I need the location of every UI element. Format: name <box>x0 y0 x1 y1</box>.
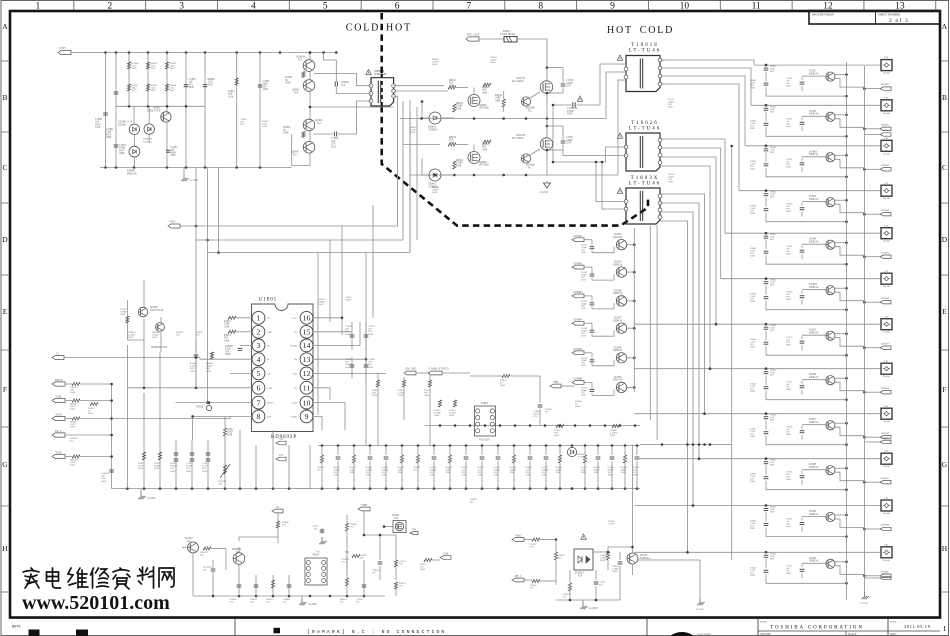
svg-text:B: B <box>942 93 947 102</box>
svg-text:KRB214: KRB214 <box>809 513 819 516</box>
capacitor C18410 <box>750 465 848 491</box>
svg-text:1608: 1608 <box>190 370 196 373</box>
svg-text:PB1: PB1 <box>885 361 889 363</box>
svg-text:450V: 450V <box>567 113 573 116</box>
svg-text:B: B <box>2 93 7 102</box>
svg-text:1608: 1608 <box>750 167 756 170</box>
capacitor CD846 <box>335 81 371 94</box>
wire gpbm bus verticals <box>634 225 657 440</box>
svg-text:PB1: PB1 <box>885 138 889 140</box>
transistor DG8R1 <box>802 150 864 168</box>
transistor D1810 <box>802 557 864 575</box>
svg-text:www.520101.com: www.520101.com <box>22 592 170 614</box>
resistor R1913 <box>449 400 457 417</box>
transistor BD1863 <box>521 92 540 112</box>
svg-text:1608: 1608 <box>285 82 291 85</box>
svg-text:1608: 1608 <box>786 298 792 301</box>
resistor R1826 <box>424 375 432 446</box>
connector SPBM2 <box>864 573 891 580</box>
svg-text:1608: 1608 <box>186 470 192 473</box>
svg-text:N.P: N.P <box>250 601 254 604</box>
wire bus y252 <box>208 251 411 254</box>
svg-text:5.1KF: 5.1KF <box>608 523 615 526</box>
capacitor C1847 <box>750 331 848 357</box>
connector VDD mid <box>168 220 180 228</box>
resistor R1848 <box>621 446 628 489</box>
svg-text:1608: 1608 <box>170 470 176 473</box>
svg-text:1608: 1608 <box>750 300 756 303</box>
resistor R8015 to pin2 <box>224 330 252 342</box>
mosfet QM802 <box>468 145 489 167</box>
capacitor C1844 <box>750 197 848 223</box>
wire left block rail <box>100 166 292 169</box>
ground bottom mid <box>299 596 316 606</box>
svg-text:T1803X: T1803X <box>631 176 660 181</box>
svg-text:U1801: U1801 <box>259 298 278 303</box>
svg-text:BD9893P: BD9893P <box>271 435 297 440</box>
transistor D1806 <box>802 373 864 391</box>
svg-text:LL: LL <box>56 352 60 356</box>
svg-text:P-GND: P-GND <box>540 191 548 194</box>
wire opto bottom <box>556 599 620 602</box>
svg-text:N.C: N.C <box>356 601 360 604</box>
capacitor C1889 <box>95 113 108 129</box>
capacitor C1837 <box>542 446 550 489</box>
wire driver column <box>292 51 394 165</box>
resistor R8034 <box>495 91 505 112</box>
svg-text:1608: 1608 <box>750 212 756 215</box>
svg-text:N.P: N.P <box>298 58 303 61</box>
capacitor C1813 <box>786 158 804 172</box>
svg-text:KRB124: KRB124 <box>613 292 623 295</box>
capacitor C1843 <box>750 152 848 178</box>
ground A-GND left block <box>181 167 198 182</box>
connector SWB <box>52 413 112 429</box>
svg-text:4: 4 <box>251 2 256 12</box>
connector COR <box>440 552 451 560</box>
svg-text:1608: 1608 <box>526 474 532 477</box>
svg-text:PB1: PB1 <box>885 544 889 546</box>
svg-text:Backlit: Backlit <box>883 113 890 115</box>
lamp connector square ch7 <box>881 316 892 333</box>
resistor R1865 <box>283 126 305 138</box>
capacitor at GPBM6 <box>581 382 594 396</box>
capacitor C1839 <box>633 446 640 489</box>
label KH048 <box>127 170 137 176</box>
capacitor C1830 <box>546 66 574 94</box>
resistor R1831 <box>350 446 357 489</box>
svg-text:GPBM2: GPBM2 <box>573 261 583 265</box>
svg-text:COMP: COMP <box>290 415 297 418</box>
resistor R1851 <box>228 78 238 98</box>
resistor RD841 <box>414 446 422 489</box>
svg-text:LT-TU46: LT-TU46 <box>629 127 662 132</box>
svg-text:N.P: N.P <box>341 84 346 87</box>
transistor DC804 <box>592 233 636 253</box>
svg-text:2: 2 <box>107 2 112 12</box>
svg-text:1608: 1608 <box>154 467 160 470</box>
ground right bus <box>860 592 869 605</box>
svg-text:9: 9 <box>610 2 615 12</box>
connector VDB <box>52 451 112 467</box>
watermark chinese characters <box>23 567 174 589</box>
svg-text:6KV: 6KV <box>770 329 775 332</box>
capacitor at GPBM5 <box>581 353 594 367</box>
ic U1801 pin 12 <box>293 367 313 380</box>
svg-text:1608: 1608 <box>420 568 426 571</box>
lamp return connector OPBMA <box>863 477 891 484</box>
resistor R1886 <box>345 515 357 570</box>
svg-text:1608: 1608 <box>138 467 144 470</box>
capacitor C18411 <box>750 512 848 538</box>
ic U1801 pin 5 <box>252 367 271 380</box>
mosfet Q18718 <box>512 76 553 93</box>
lamp connector square ch1 <box>881 57 892 74</box>
svg-text:IN: IN <box>267 358 270 361</box>
ic U1801 pin 14 <box>290 339 313 352</box>
svg-text:13: 13 <box>303 355 311 364</box>
svg-text:N.C: N.C <box>196 334 200 337</box>
wire hot mid verticals <box>410 100 417 252</box>
capacitor bottom b3 <box>266 575 275 604</box>
svg-text:PB1: PB1 <box>885 97 889 99</box>
svg-text:1608: 1608 <box>372 394 378 397</box>
capacitor C1867 C1868 pair <box>345 357 375 378</box>
remark text <box>307 629 446 635</box>
wire pin7 <box>176 402 253 404</box>
wire pin8 <box>191 415 252 440</box>
connector 15V small <box>276 453 286 461</box>
capacitor at GPBM1 <box>581 240 594 254</box>
resistor pair R1884 R1885 <box>127 62 138 106</box>
transistor D1803 <box>802 195 864 213</box>
svg-text:S-AN: S-AN <box>578 456 584 459</box>
capacitor C1919 <box>186 440 194 489</box>
svg-text:HOT: HOT <box>386 23 412 34</box>
svg-text:2: 2 <box>257 328 261 337</box>
transformer T18018 <box>624 56 662 92</box>
svg-text:1: 1 <box>257 314 261 323</box>
lamp connector square ch10 <box>881 451 892 468</box>
svg-text:1608: 1608 <box>424 394 430 397</box>
svg-text:1608: 1608 <box>612 570 618 573</box>
mosfet D1802 box <box>383 514 418 535</box>
svg-text:KRB124: KRB124 <box>613 263 623 266</box>
transistor Q1802 <box>147 107 171 168</box>
svg-text:11: 11 <box>752 2 761 12</box>
svg-text:F: F <box>3 385 7 394</box>
svg-text:1608: 1608 <box>750 527 756 530</box>
capacitor C18111 <box>786 518 804 532</box>
capacitor C8848 <box>764 367 777 376</box>
svg-text:1608: 1608 <box>556 471 562 474</box>
labels near Q1898 <box>128 331 203 349</box>
svg-text:N.P: N.P <box>316 551 320 554</box>
svg-text:1608: 1608 <box>786 253 792 256</box>
resistor R1881 opto <box>554 540 565 586</box>
svg-text:PB1: PB1 <box>885 451 889 453</box>
wire pin12 stb <box>313 372 386 374</box>
svg-text:LT-TU46: LT-TU46 <box>629 49 662 54</box>
svg-text:1608: 1608 <box>633 474 639 477</box>
label cluster near opto <box>470 498 615 526</box>
svg-text:1608: 1608 <box>750 390 756 393</box>
isolation boundary dashed line <box>382 13 648 226</box>
svg-text:GPBM5: GPBM5 <box>573 347 583 351</box>
resistor R1873 <box>394 552 406 580</box>
svg-text:5416: 5416 <box>208 83 214 86</box>
svg-text:1608: 1608 <box>410 131 416 134</box>
svg-text:Backlit: Backlit <box>883 198 890 200</box>
capacitor C18412 <box>750 559 848 585</box>
svg-text:VDD: VDD <box>169 220 175 224</box>
capacitor C1869 C1870 pair <box>345 322 375 350</box>
svg-text:Backlit: Backlit <box>883 376 890 378</box>
resistor R1840 <box>610 424 620 437</box>
svg-text:MMBT2N7002: MMBT2N7002 <box>151 346 168 349</box>
transistor Q1864 <box>303 119 323 131</box>
svg-text:6KV: 6KV <box>770 238 775 241</box>
svg-text:FREQ: FREQ <box>196 405 203 409</box>
wire lower comp row rails <box>295 444 640 490</box>
svg-text:N.P: N.P <box>294 91 299 94</box>
lamp connector square ch11 <box>881 498 892 515</box>
svg-text:6KV: 6KV <box>770 557 775 560</box>
capacitor C8842 <box>764 104 777 113</box>
capacitor C1812 <box>786 117 804 131</box>
svg-text:1608: 1608 <box>88 412 94 415</box>
wire LVPS bus <box>71 51 338 54</box>
capacitor C1818 <box>786 381 804 395</box>
svg-text:1608: 1608 <box>581 471 587 474</box>
wire bottom block rail <box>193 595 385 598</box>
svg-text:7: 7 <box>257 398 261 407</box>
optocoupler PC8042 <box>574 549 593 577</box>
capacitor C1815 <box>786 245 804 259</box>
ground P-GND <box>540 181 551 194</box>
svg-text:N.C: N.C <box>599 584 603 587</box>
resistor R1837 <box>554 424 564 437</box>
connector LVPS <box>58 46 71 55</box>
svg-text:N.C: N.C <box>314 528 318 531</box>
zener ZD1803 <box>118 106 140 134</box>
svg-text:E: E <box>942 307 947 316</box>
svg-text:DWG: DWG <box>890 633 897 636</box>
svg-text:12: 12 <box>303 369 311 378</box>
svg-text:1KV: 1KV <box>566 85 571 88</box>
svg-text:1608: 1608 <box>786 210 792 213</box>
svg-text:1608: 1608 <box>668 106 674 109</box>
svg-text:1608: 1608 <box>750 127 756 130</box>
transistor DC861 <box>182 537 199 553</box>
svg-text:N.P: N.P <box>399 585 403 588</box>
svg-text:5416: 5416 <box>170 67 176 70</box>
ground mid bottom <box>696 574 705 611</box>
svg-text:8: 8 <box>257 412 261 421</box>
resistor R1841 opto <box>530 579 556 589</box>
svg-text:1608: 1608 <box>786 165 792 168</box>
svg-text:1608: 1608 <box>225 353 231 356</box>
lamp return connector OPBM7 <box>863 342 891 349</box>
svg-text:A: A <box>942 22 948 31</box>
label cluster left input 1 <box>240 118 269 128</box>
svg-text:LEAD BEAD: LEAD BEAD <box>500 33 515 36</box>
svg-text:KRB14A: KRB14A <box>640 557 650 560</box>
wire to T18018 primary <box>547 64 626 175</box>
cold hot labels left <box>346 23 412 34</box>
svg-text:3216: 3216 <box>132 89 138 92</box>
capacitor C1848 <box>750 375 848 401</box>
svg-text:[ReMARK] N.C : NO CONNECTION: [ReMARK] N.C : NO CONNECTION <box>307 629 446 635</box>
svg-text:2N7002K: 2N7002K <box>479 107 489 110</box>
transistor QE841 <box>292 80 315 95</box>
transistor Q1899 <box>156 317 165 352</box>
svg-text:1608: 1608 <box>449 414 455 417</box>
wire right bus 1 <box>846 62 848 600</box>
svg-text:3216: 3216 <box>151 67 157 70</box>
resistor R8043 <box>453 102 464 112</box>
svg-text:KRB214: KRB214 <box>809 376 819 379</box>
svg-text:EDB2A: EDB2A <box>429 129 438 132</box>
svg-text:KRB214: KRB214 <box>809 286 819 289</box>
svg-text:K15A60U: K15A60U <box>512 79 524 83</box>
svg-text:RMT8: RMT8 <box>55 378 63 382</box>
svg-text:KRB214: KRB214 <box>809 421 819 424</box>
svg-text:Backlit: Backlit <box>883 513 890 515</box>
capacitor C1885b <box>258 80 270 91</box>
svg-text:100uF: 100uF <box>345 299 352 302</box>
svg-text:P-GND: P-GND <box>860 602 868 605</box>
resistor R1818 <box>446 446 453 489</box>
svg-text:1608: 1608 <box>786 125 792 128</box>
resistor R1833 <box>318 446 325 489</box>
svg-text:KRB124: KRB124 <box>613 349 623 352</box>
svg-text:1608: 1608 <box>608 474 614 477</box>
lamp return connector OPBMB <box>863 524 891 531</box>
svg-text:SPBM2: SPBM2 <box>881 573 890 576</box>
transistor D1814 <box>627 547 650 575</box>
capacitor C1876 <box>382 446 390 489</box>
top zone strip divider ticks <box>74 1 936 11</box>
svg-text:VSB: VSB <box>56 395 62 399</box>
svg-text:1608: 1608 <box>227 433 233 436</box>
svg-text:KRB214: KRB214 <box>809 113 819 116</box>
svg-text:1608: 1608 <box>368 333 374 336</box>
svg-text:1608: 1608 <box>500 384 506 387</box>
wire opto links <box>593 445 660 561</box>
resistor R1830 <box>398 446 405 489</box>
lamp return connector OPBM5 <box>863 251 891 258</box>
svg-text:1608: 1608 <box>478 474 484 477</box>
svg-text:N.P: N.P <box>176 334 180 337</box>
ic U1801 pin 11 <box>294 381 313 394</box>
svg-text:1608: 1608 <box>70 391 76 394</box>
capacitor C1944 <box>356 575 366 604</box>
warning triangle at PT8012 <box>366 70 372 75</box>
svg-text:1608: 1608 <box>554 434 560 437</box>
svg-text:LAMP_STATUS: LAMP_STATUS <box>429 367 449 371</box>
svg-text:1608: 1608 <box>189 86 195 89</box>
svg-text:5416: 5416 <box>151 89 157 92</box>
svg-text:OPBM6: OPBM6 <box>881 297 890 300</box>
resistor pair R8065 R1881 <box>146 62 157 106</box>
svg-text:KRA124: KRA124 <box>613 236 623 239</box>
svg-text:6KV: 6KV <box>770 419 775 422</box>
svg-text:KRB214: KRB214 <box>809 560 819 563</box>
lamp connector square ch4 <box>881 183 892 200</box>
svg-text:N.P: N.P <box>578 574 583 577</box>
zener ZD1804 <box>567 446 584 459</box>
svg-text:1608: 1608 <box>430 474 436 477</box>
svg-text:K15A60U: K15A60U <box>512 136 524 140</box>
svg-text:1608: 1608 <box>101 480 107 483</box>
ic U1801 BD9897F body <box>252 298 314 440</box>
lamp return connector OPBM1 <box>863 83 891 90</box>
transistor D1807 <box>802 418 864 436</box>
ic U1801 pin 3 <box>252 339 270 352</box>
connector GPBM6 <box>572 377 592 385</box>
wire to T1803X primary <box>595 161 626 209</box>
capacitor C18052A <box>552 96 600 116</box>
capacitor R1844 <box>594 446 601 489</box>
diode DD842 <box>422 159 454 189</box>
svg-text:N.C: N.C <box>70 440 74 443</box>
connector VBB <box>550 380 575 388</box>
svg-text:1608: 1608 <box>600 559 606 562</box>
transistor DC807 <box>592 317 636 337</box>
capacitor UC1878 <box>203 560 215 596</box>
svg-text:A: A <box>2 22 8 31</box>
transistor Q1898 <box>138 280 164 388</box>
svg-text:10: 10 <box>303 398 311 407</box>
svg-text:COLD: COLD <box>346 23 380 34</box>
svg-text:Backlit: Backlit <box>883 286 890 288</box>
svg-text:NOTE: NOTE <box>12 626 21 630</box>
svg-text:SWB: SWB <box>55 413 61 417</box>
svg-text:N.C: N.C <box>342 561 346 564</box>
svg-text:16V: 16V <box>533 415 537 418</box>
resistor R1834 <box>470 374 540 387</box>
svg-text:Backlit: Backlit <box>883 153 890 155</box>
label cluster gpbm bottom <box>545 400 582 414</box>
capacitor C1914 <box>202 440 210 489</box>
capacitor C8847 <box>764 323 777 332</box>
svg-text:N.C: N.C <box>528 109 533 112</box>
svg-text:LCD POWER: LCD POWER <box>697 633 712 636</box>
sheet number box top right <box>809 11 940 25</box>
svg-text:N.C: N.C <box>282 524 286 527</box>
capacitor C18110 <box>786 471 804 485</box>
svg-text:LVPS: LVPS <box>59 46 66 50</box>
ic U1801 pin 15 <box>294 325 313 338</box>
resistor pair R1802 R8064 <box>165 62 176 92</box>
wire pin14 <box>313 322 360 345</box>
transistor Q1804A <box>296 56 315 72</box>
svg-text:TITLE: TITLE <box>760 621 767 624</box>
capacitor C1841 <box>750 72 848 98</box>
resistor R1804 <box>600 547 610 570</box>
svg-text:2011.05.19: 2011.05.19 <box>904 624 931 629</box>
svg-text:1608: 1608 <box>382 474 388 477</box>
capacitor C1872 <box>478 446 485 489</box>
ferrite bead RD811 <box>479 30 517 42</box>
lamp return connector OPBM8 <box>863 387 891 394</box>
svg-text:1608: 1608 <box>490 61 496 64</box>
svg-text:RTDL14T-P: RTDL14T-P <box>147 110 161 113</box>
svg-text:OPBM7: OPBM7 <box>881 342 890 345</box>
capacitor C1874 <box>430 446 438 489</box>
wire swb to ic <box>112 416 230 418</box>
